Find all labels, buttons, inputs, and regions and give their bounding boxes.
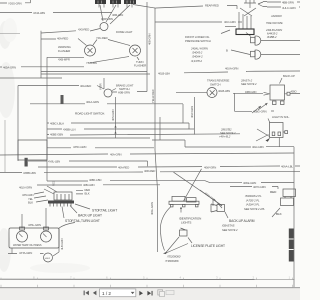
svg-text:465A-GRN: 465A-GRN [3, 65, 16, 69]
svg-text:40B-GRN: 40B-GRN [148, 33, 152, 45]
svg-text:/3,4478-2: /3,4478-2 [190, 59, 202, 63]
svg-text:40A-GRN: 40A-GRN [110, 153, 122, 157]
svg-text:401A-GRN: 401A-GRN [86, 100, 99, 104]
svg-text:/70208060: /70208060 [166, 255, 181, 259]
svg-text:H0B-GRN: H0B-GRN [118, 91, 130, 95]
svg-text:YELW-REC: YELW-REC [151, 89, 155, 103]
svg-text:4XBB-LBN: 4XBB-LBN [23, 171, 36, 175]
svg-text:H0U2: H0U2 [45, 258, 51, 260]
svg-text:40W-GRN: 40W-GRN [204, 165, 216, 169]
svg-text:SWITCH: SWITCH [210, 83, 221, 87]
svg-text:40R-RED: 40R-RED [144, 169, 155, 173]
svg-text:40BC-LBLA: 40BC-LBLA [50, 122, 64, 126]
svg-text:BLK: BLK [28, 201, 33, 205]
svg-text:4070-GRN: 4070-GRN [253, 185, 266, 189]
svg-text:Y0SS-GRN: Y0SS-GRN [8, 1, 22, 5]
svg-text:LICENSE PLATE LIGHT: LICENSE PLATE LIGHT [191, 244, 225, 248]
svg-text:4X5L-GRN: 4X5L-GRN [28, 223, 41, 227]
svg-text:40BF-LBN: 40BF-LBN [89, 178, 101, 182]
svg-text:ROAD LIGHT SWITCH.: ROAD LIGHT SWITCH. [75, 111, 105, 115]
svg-text:SWITCH: SWITCH [119, 87, 130, 91]
svg-text:4XTA-GRN: 4XTA-GRN [19, 251, 32, 255]
svg-text:40A-RED: 40A-RED [57, 37, 68, 41]
svg-text:BLK: BLK [85, 191, 90, 195]
svg-text:40AL-GRN: 40AL-GRN [150, 202, 154, 215]
svg-text:Y05R: Y05R [99, 83, 103, 90]
svg-text:FLASHER: FLASHER [134, 64, 146, 68]
svg-text:4BB-GRN: 4BB-GRN [282, 1, 294, 5]
svg-text:4X5C-GRN: 4X5C-GRN [73, 145, 86, 149]
svg-text:STOP,TAIL,TURN LIGHT: STOP,TAIL,TURN LIGHT [65, 219, 100, 223]
svg-text:4X44-LBN: 4X44-LBN [33, 11, 45, 15]
svg-text:SEE NOTE 2: SEE NOTE 2 [241, 82, 257, 86]
svg-text:4X5-RED: 4X5-RED [78, 28, 89, 32]
svg-text:BACK-UP ALARM: BACK-UP ALARM [229, 219, 255, 223]
svg-text:REAR-RED: REAR-RED [205, 3, 219, 7]
svg-text:FLASHER: FLASHER [58, 49, 70, 53]
svg-text:A3200003: A3200003 [270, 15, 282, 18]
svg-text:40A-RED: 40A-RED [118, 165, 129, 169]
svg-text:RED: RED [270, 190, 277, 194]
svg-text:LIGHT IN SOL.: LIGHT IN SOL. [272, 115, 290, 119]
svg-text:/T3800306: /T3800306 [164, 259, 179, 263]
svg-text:40AA-LBL: 40AA-LBL [281, 164, 293, 168]
svg-text:4XB-MPR: 4XB-MPR [58, 58, 70, 62]
svg-text:Y50-LBN: Y50-LBN [86, 61, 97, 65]
svg-text:+48+-8L2: +48+-8L2 [219, 135, 231, 139]
svg-text:40BD-GRN: 40BD-GRN [245, 91, 257, 94]
svg-text:40LB-LBN: 40LB-LBN [218, 89, 230, 93]
svg-text:40BE-GBN: 40BE-GBN [50, 133, 63, 137]
svg-text:SEE NOTE 2 2PL: SEE NOTE 2 2PL [244, 207, 265, 211]
svg-text:40LB-LBA: 40LB-LBA [158, 72, 170, 76]
svg-text:LIGHTS: LIGHTS [181, 220, 191, 224]
svg-text:40BO: 40BO [291, 91, 297, 94]
svg-text:40U-GRN: 40U-GRN [224, 20, 236, 24]
svg-text:BACK-UP LIGHT: BACK-UP LIGHT [78, 214, 102, 218]
svg-text:PRESSURE SWITCH: PRESSURE SWITCH [185, 39, 211, 43]
svg-text:4Y8L-LBN: 4Y8L-LBN [48, 160, 60, 164]
svg-text:40W-GRN: 40W-GRN [190, 106, 194, 118]
svg-text:/500DD8-2 PL: /500DD8-2 PL [244, 194, 262, 198]
svg-text:1 / 2: 1 / 2 [102, 291, 111, 296]
svg-text:4LB-GRN: 4LB-GRN [60, 238, 64, 250]
svg-text:40LN-GRN: 40LN-GRN [19, 186, 32, 190]
svg-text:40UA-GRN: 40UA-GRN [225, 67, 238, 71]
svg-text:40H-GRN: 40H-GRN [252, 145, 264, 149]
svg-text:4ULC-GRN: 4ULC-GRN [282, 6, 296, 10]
svg-text:SEE NOTE 2: SEE NOTE 2 [222, 228, 238, 232]
svg-text:40S-GRN: 40S-GRN [111, 109, 115, 121]
svg-text:/0BASTAS: /0BASTAS [221, 224, 235, 228]
svg-text:STOP,TAIL LIGHT: STOP,TAIL LIGHT [92, 209, 117, 213]
svg-text:46M-LBN: 46M-LBN [112, 13, 123, 17]
svg-text:B: B [226, 48, 228, 52]
svg-text:4XBB-LLN: 4XBB-LLN [63, 128, 75, 132]
svg-text:40BG-GRN: 40BG-GRN [253, 109, 267, 113]
svg-text:TIME OFF W8E: TIME OFF W8E [266, 22, 283, 25]
svg-text:/340A4-2: /340A4-2 [191, 55, 203, 59]
svg-text:BACK-UP: BACK-UP [283, 74, 295, 78]
svg-text:WATER TEMP. OIL PRESS: WATER TEMP. OIL PRESS [13, 244, 42, 247]
svg-text:/64BB-2: /64BB-2 [266, 35, 277, 39]
svg-text:RED: RED [53, 181, 56, 186]
svg-text:/A30/4 3 PL: /A30/4 3 PL [245, 203, 260, 207]
svg-text:Y0U-RED: Y0U-RED [96, 36, 108, 40]
svg-text:40B-GRN: 40B-GRN [83, 183, 95, 187]
svg-text:GRP-LBN: GRP-LBN [101, 17, 113, 21]
svg-text:40A-RED: 40A-RED [80, 84, 91, 88]
svg-text:DOME LIGHT: DOME LIGHT [116, 30, 133, 34]
